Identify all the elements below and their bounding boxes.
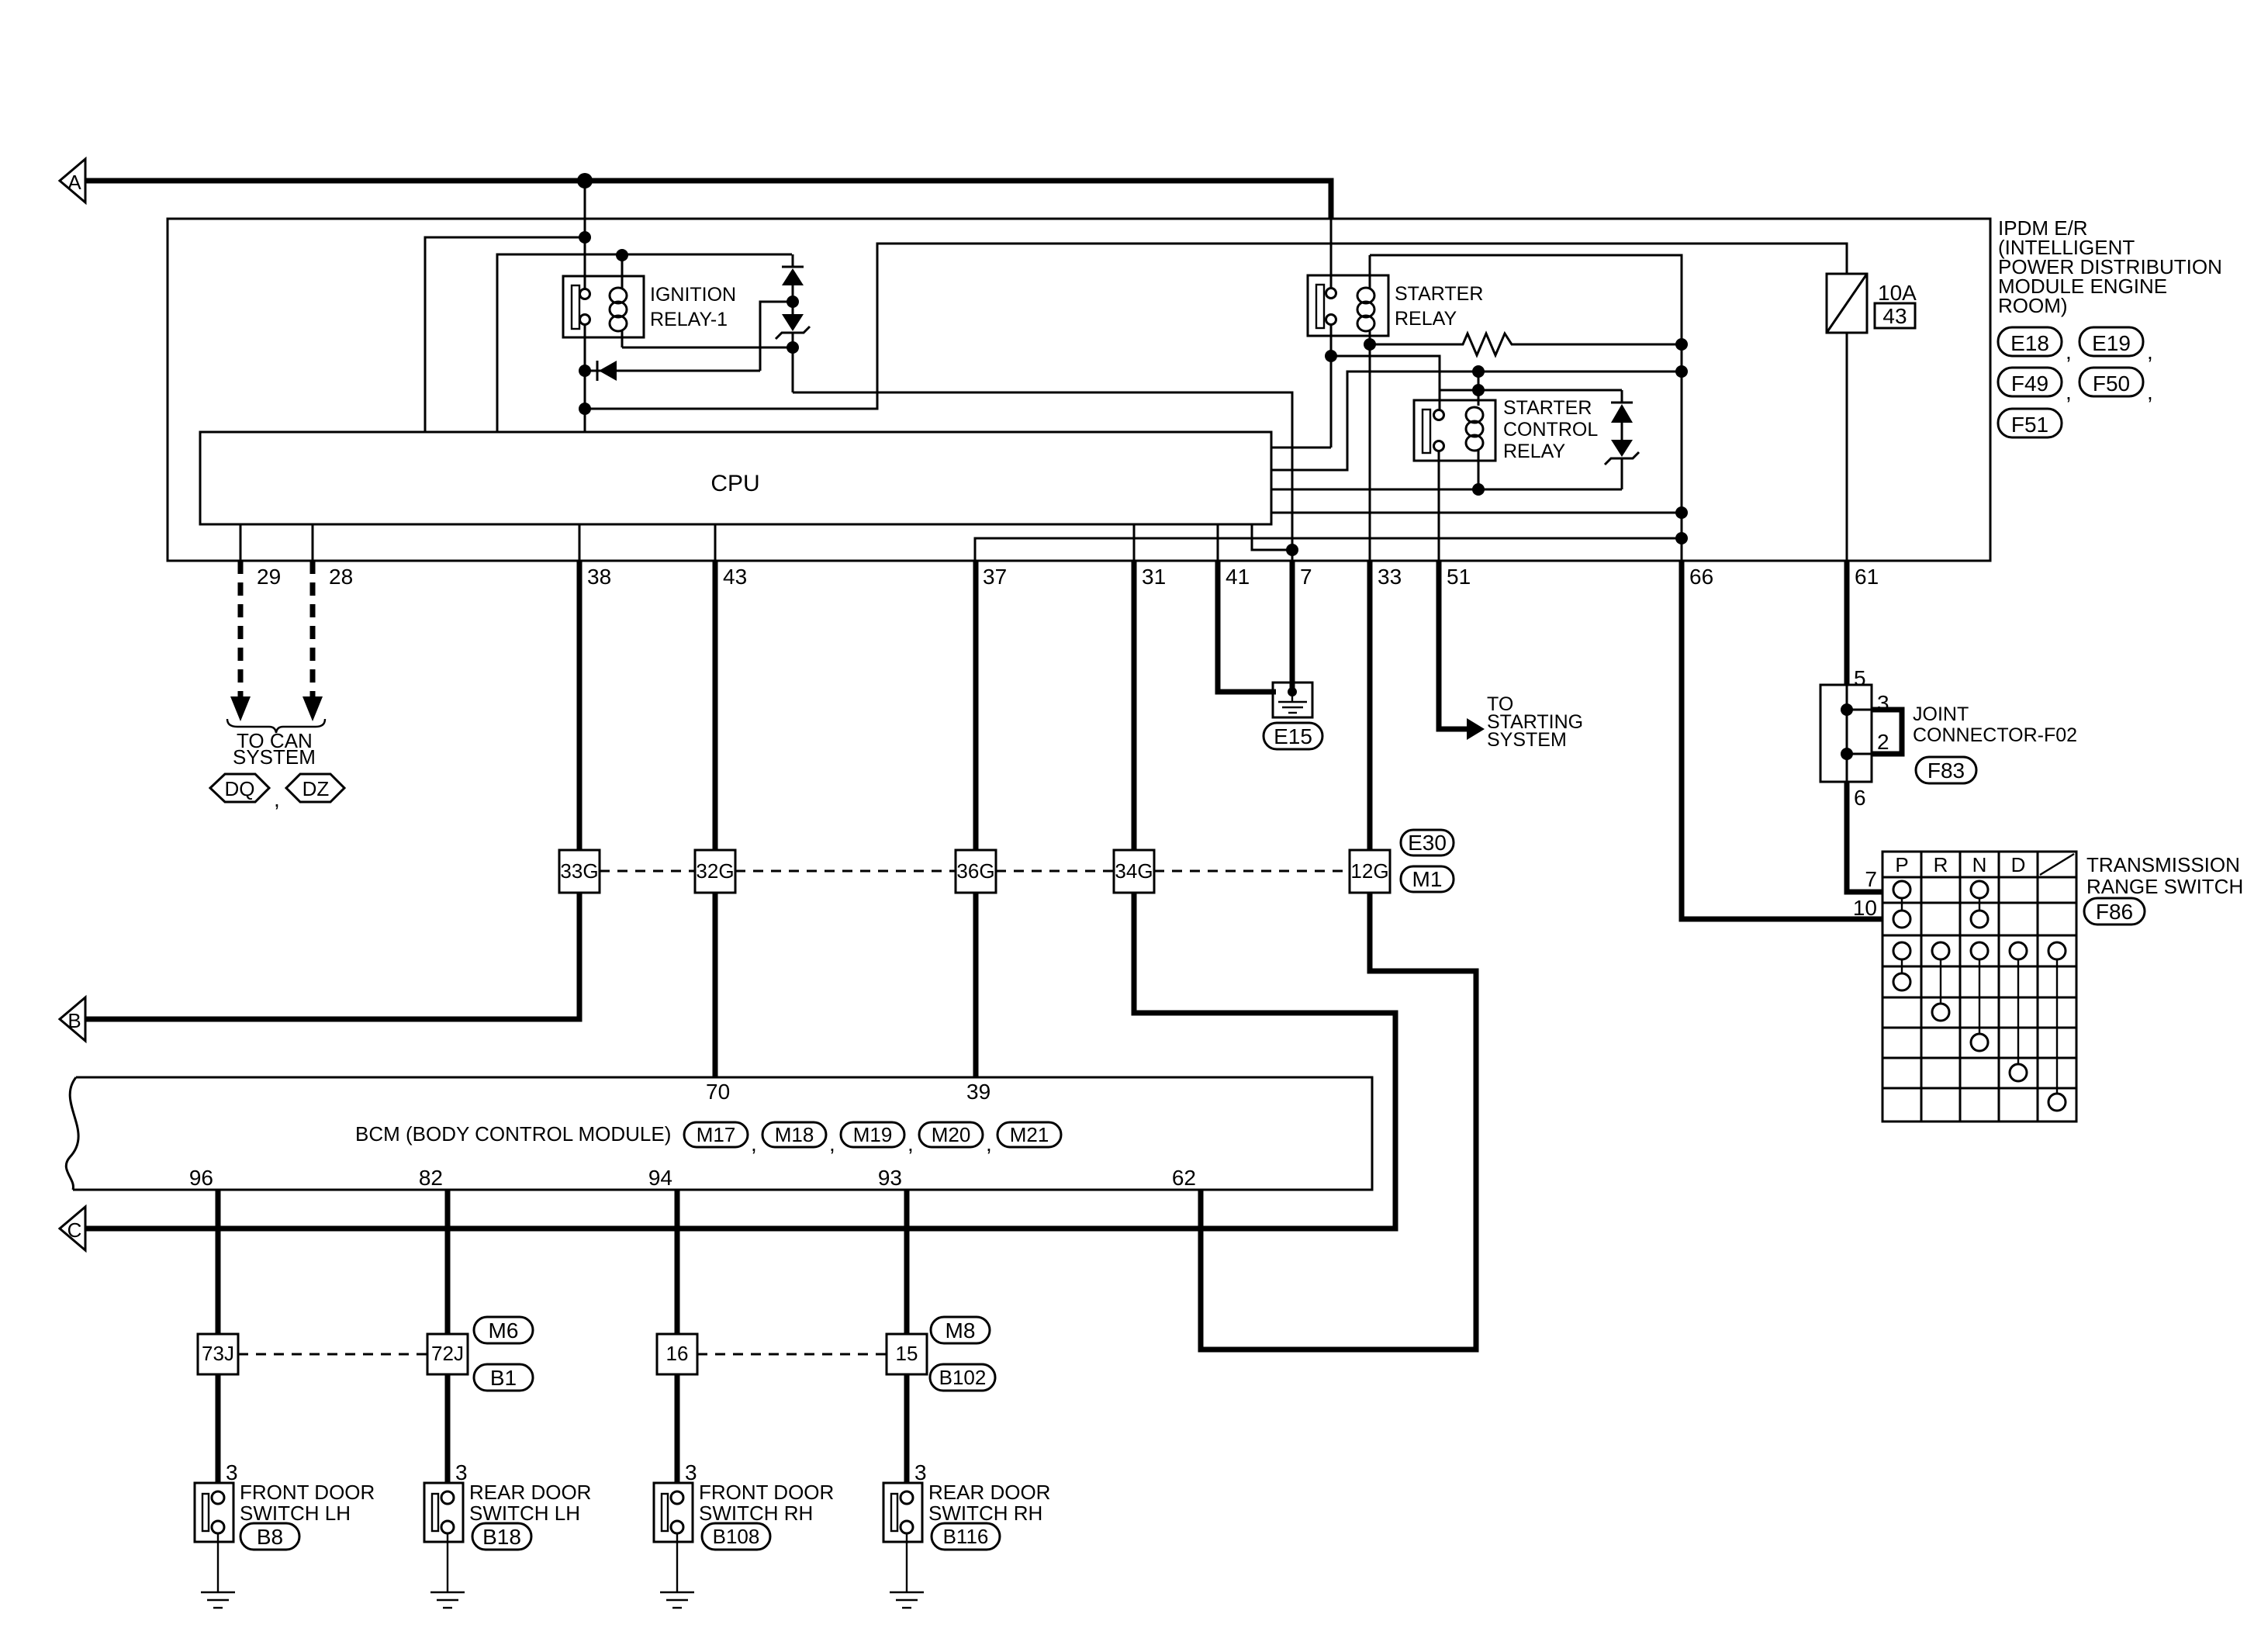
connector tag B102 <box>930 1364 995 1391</box>
wire starter contact to SCR contact top <box>1331 356 1440 410</box>
svg-text:,: , <box>2066 380 2072 404</box>
junction net66 <box>1675 532 1688 544</box>
connector tag M1 <box>1401 866 1454 892</box>
wire pin 51 to starting system <box>1439 561 1468 729</box>
svg-text:15: 15 <box>896 1342 918 1365</box>
connector tag E15 <box>1264 723 1322 749</box>
wire SCR contact output to pin 51 <box>1438 451 1440 561</box>
wire SCR cell top edge <box>1439 389 1622 392</box>
svg-text:5: 5 <box>1854 666 1866 690</box>
wire CPU pin 38 stub <box>579 524 581 561</box>
wire CPU pin to node 7 <box>1252 524 1292 550</box>
svg-text:DZ: DZ <box>303 777 330 800</box>
wire pin 66 to TRS pin 10 <box>1682 561 1882 919</box>
TRS P column contacts <box>1893 881 1910 898</box>
wire pin 61 to fuse <box>1846 333 1848 561</box>
wire 16 to front door switch RH <box>675 1374 680 1483</box>
svg-text:61: 61 <box>1855 565 1879 589</box>
svg-text:M6: M6 <box>489 1318 519 1343</box>
svg-text:CONTROL: CONTROL <box>1503 419 1598 441</box>
wire pin37 to net66 <box>975 538 1682 561</box>
connector 16 <box>657 1334 697 1374</box>
connector tag F86 <box>2084 898 2145 924</box>
wire ignition output to fuse (net 61 feed) <box>585 244 1847 409</box>
junction SCR coil top <box>1472 365 1485 378</box>
front door switch RH <box>654 1483 693 1542</box>
svg-text:,: , <box>829 1132 835 1156</box>
wire 73J to front door switch LH <box>216 1374 221 1483</box>
svg-text:SWITCH RH: SWITCH RH <box>928 1502 1042 1525</box>
resistor R1 <box>1370 334 1682 355</box>
svg-text:7: 7 <box>1300 565 1312 589</box>
connector 34G <box>1114 850 1154 893</box>
wire CPU to net66 <box>1271 512 1682 514</box>
wire zener output to CPU node 7 <box>793 392 1292 561</box>
CPU U1 box <box>200 432 1271 524</box>
fuse number box 43 <box>1875 303 1915 328</box>
CAN arrowhead right <box>303 696 323 721</box>
svg-text:STARTER: STARTER <box>1395 283 1483 305</box>
svg-text:RELAY: RELAY <box>1503 441 1565 462</box>
wire diode return to zener mid node <box>760 302 787 371</box>
svg-text:M17: M17 <box>697 1123 736 1146</box>
svg-text:CPU: CPU <box>710 471 759 496</box>
svg-text:REAR DOOR: REAR DOOR <box>469 1481 591 1504</box>
connector tag M8 <box>931 1317 990 1343</box>
svg-text:B108: B108 <box>713 1525 760 1548</box>
wire A to ignition relay contact top <box>584 181 586 289</box>
TRS D column contacts <box>2010 942 2027 959</box>
dashed link 73J-72J <box>238 1353 427 1356</box>
connector tag F49 <box>1998 368 2062 396</box>
junction diode tap <box>579 365 591 377</box>
starter relay coil <box>1369 255 1371 289</box>
connector 36G <box>956 850 996 893</box>
wire CPU pin 43 stub <box>714 524 717 561</box>
wire pin 37 to 36G <box>973 561 979 850</box>
svg-text:32G: 32G <box>696 859 734 883</box>
joint connector F02 box <box>1820 685 1872 782</box>
svg-text:28: 28 <box>329 565 353 589</box>
junction bus A dot <box>577 173 593 188</box>
svg-text:C: C <box>67 1218 82 1242</box>
svg-text:73J: 73J <box>202 1342 234 1365</box>
wire starter contact output <box>1330 325 1333 448</box>
starter control relay K3 box <box>1414 400 1495 461</box>
svg-text:72J: 72J <box>431 1342 464 1365</box>
svg-text:34G: 34G <box>1115 859 1153 883</box>
connector tag M18 <box>762 1122 826 1147</box>
svg-text:10: 10 <box>1853 896 1877 920</box>
CAN arrowhead left <box>230 696 251 721</box>
connector 72J <box>427 1334 468 1374</box>
svg-text:36G: 36G <box>956 859 994 883</box>
ignition relay K1 box <box>563 276 644 337</box>
svg-text:2: 2 <box>1877 730 1889 754</box>
svg-text:94: 94 <box>648 1166 672 1190</box>
svg-text:B1: B1 <box>490 1366 517 1390</box>
wire 15 to rear door switch RH <box>904 1374 910 1483</box>
starter relay K2 box <box>1308 275 1388 336</box>
svg-text:B8: B8 <box>257 1525 283 1549</box>
SCR contact circles <box>1434 410 1444 420</box>
rear door switch RH <box>883 1483 922 1542</box>
node A arrowhead <box>60 159 85 202</box>
wire bus A <box>85 181 1331 219</box>
zener D3 (ignition) <box>792 307 794 314</box>
svg-text:37: 37 <box>983 565 1007 589</box>
svg-text:10A: 10A <box>1878 281 1917 305</box>
starter relay contact circles <box>1326 289 1336 299</box>
wire ignition contact output <box>584 325 586 432</box>
junction node 7 <box>1286 544 1298 556</box>
svg-text:M1: M1 <box>1412 867 1443 891</box>
svg-text:STARTER: STARTER <box>1503 397 1592 419</box>
svg-text:N: N <box>1972 853 1987 876</box>
wire 32G to BCM pin 70 <box>713 893 718 1077</box>
node B arrowhead <box>60 997 85 1041</box>
SCR contact bar <box>1423 410 1430 453</box>
svg-text:B18: B18 <box>482 1525 521 1549</box>
svg-text:R: R <box>1934 853 1948 876</box>
connector 33G <box>559 850 600 893</box>
zener D5 (SCR) <box>1611 440 1633 457</box>
wire CAN-L dashed <box>310 561 316 699</box>
svg-text:3: 3 <box>685 1460 697 1484</box>
ground (rear door switch LH) <box>447 1533 448 1592</box>
node tag DQ <box>210 774 269 802</box>
rear door switch LH <box>424 1483 463 1542</box>
wire BCM pin 82 to 72J <box>445 1190 451 1334</box>
starter relay contact bar <box>1316 285 1324 328</box>
BCM torn left edge <box>66 1077 78 1190</box>
svg-text:70: 70 <box>706 1080 730 1104</box>
transmission range switch grid <box>1882 852 2076 1121</box>
connector tag E18 <box>1998 327 2062 356</box>
front door switch LH <box>195 1483 233 1542</box>
svg-text:82: 82 <box>419 1166 443 1190</box>
junction pin 3 <box>1841 703 1853 716</box>
connector tag B1 <box>474 1364 533 1391</box>
connector tag M6 <box>474 1317 533 1343</box>
wire CPU to SCR coil top / net66 <box>1271 372 1682 470</box>
svg-text:M19: M19 <box>853 1123 893 1146</box>
wire starter coil top to net66 <box>1370 255 1682 561</box>
connector tag M19 <box>841 1122 904 1147</box>
junction output tap <box>579 403 591 415</box>
svg-text:,: , <box>2147 340 2153 364</box>
svg-text:D: D <box>2011 853 2026 876</box>
svg-text:7: 7 <box>1865 867 1877 891</box>
diode D1 (flyback, ignition) <box>590 370 760 372</box>
svg-text:16: 16 <box>666 1342 689 1365</box>
wire pin 7 to ground E15 <box>1290 561 1295 689</box>
wire 12G to BCM pin 62 <box>1201 893 1476 1350</box>
svg-text:F50: F50 <box>2093 372 2130 396</box>
svg-text:3: 3 <box>226 1460 238 1484</box>
joint connector internal wire <box>1846 685 1848 782</box>
svg-text:SWITCH LH: SWITCH LH <box>469 1502 580 1525</box>
wire bus B from 33G <box>85 893 579 1019</box>
svg-text:B116: B116 <box>943 1525 989 1548</box>
TRS slash column contacts <box>2048 942 2066 959</box>
svg-text:ROOM): ROOM) <box>1998 294 2068 317</box>
svg-text:RELAY: RELAY <box>1395 308 1457 330</box>
svg-text:96: 96 <box>189 1166 213 1190</box>
junction starter coil / resistor <box>1364 338 1376 351</box>
svg-text:43: 43 <box>1882 304 1907 328</box>
wire CPU pin 28 stub <box>312 524 314 561</box>
node C arrowhead <box>60 1207 85 1250</box>
ignition relay contact bar <box>572 285 579 329</box>
CAN brace <box>227 719 325 733</box>
svg-text:SWITCH RH: SWITCH RH <box>699 1502 813 1525</box>
svg-text:39: 39 <box>966 1080 990 1104</box>
junction starter contact output <box>1325 350 1337 362</box>
svg-text:E15: E15 <box>1274 724 1312 748</box>
svg-text:F86: F86 <box>2096 900 2133 924</box>
TRS R column contacts <box>1932 942 1949 959</box>
wire pin 38 to 33G <box>577 561 583 850</box>
SCR coil feed <box>1478 372 1480 406</box>
connector 12G <box>1350 850 1390 893</box>
svg-text:F83: F83 <box>1927 759 1965 783</box>
ground (front door switch LH) <box>217 1533 219 1592</box>
wire 36G to BCM pin 39 <box>973 893 979 1077</box>
junction net66 tap <box>1675 365 1688 378</box>
svg-text:IGNITION: IGNITION <box>650 284 736 306</box>
wire CPU sense to contact-top node <box>425 237 585 432</box>
wire pin 31 to 34G <box>1132 561 1137 850</box>
connector tag M17 <box>684 1122 748 1147</box>
svg-text:F51: F51 <box>2011 413 2048 437</box>
SCR coil <box>1466 407 1483 423</box>
svg-text:38: 38 <box>587 565 611 589</box>
diode D2 (ignition, up) <box>792 254 794 267</box>
svg-text:,: , <box>908 1132 914 1156</box>
svg-text:93: 93 <box>878 1166 902 1190</box>
connector tag F51 <box>1998 409 2062 437</box>
svg-text:66: 66 <box>1689 565 1713 589</box>
svg-text:TRANSMISSION: TRANSMISSION <box>2086 853 2240 876</box>
svg-text:29: 29 <box>257 565 281 589</box>
svg-text:RELAY-1: RELAY-1 <box>650 309 728 330</box>
svg-text:43: 43 <box>723 565 747 589</box>
dashed link 16-15 <box>697 1353 887 1356</box>
wire pin 43 to 32G <box>713 561 718 850</box>
junction SCR box top <box>1472 384 1485 396</box>
svg-text:CONNECTOR-F02: CONNECTOR-F02 <box>1913 724 2077 746</box>
svg-text:B102: B102 <box>939 1366 987 1389</box>
svg-text:FRONT DOOR: FRONT DOOR <box>699 1481 834 1504</box>
svg-text:,: , <box>2147 380 2153 404</box>
wire joint connector pin 6 to TRS pin 7 <box>1847 782 1882 892</box>
svg-text:A: A <box>67 171 81 194</box>
svg-text:3: 3 <box>1877 691 1889 715</box>
svg-text:41: 41 <box>1226 565 1250 589</box>
svg-text:,: , <box>274 787 280 811</box>
diode D4 (SCR, up) <box>1621 390 1623 403</box>
svg-text:F49: F49 <box>2011 372 2048 396</box>
wire CPU pin 31 stub <box>1133 524 1136 561</box>
connector tag M20 <box>919 1122 983 1147</box>
svg-text:E30: E30 <box>1408 831 1447 855</box>
svg-text:M18: M18 <box>775 1123 814 1146</box>
wire pin 41 to ground E15 <box>1218 561 1276 692</box>
svg-text:E19: E19 <box>2092 331 2131 355</box>
wire CPU to SCR coil bottom (cell bottom edge) <box>1271 489 1622 491</box>
connector tag M21 <box>997 1122 1061 1147</box>
svg-text:51: 51 <box>1447 565 1471 589</box>
wire CPU pin 41 stub <box>1217 524 1219 561</box>
svg-text:62: 62 <box>1172 1166 1196 1190</box>
wire CAN-H dashed <box>238 561 244 699</box>
svg-text:,: , <box>986 1132 992 1156</box>
svg-text:SWITCH LH: SWITCH LH <box>240 1502 351 1525</box>
svg-text:31: 31 <box>1142 565 1166 589</box>
wire pin 61 to joint connector <box>1844 561 1850 685</box>
svg-text:33G: 33G <box>560 859 598 883</box>
svg-text:SYSTEM: SYSTEM <box>233 745 316 769</box>
svg-text:E18: E18 <box>2010 331 2049 355</box>
wire CPU to ignition coil top <box>497 254 792 432</box>
svg-text:,: , <box>751 1132 757 1156</box>
svg-text:JOINT: JOINT <box>1913 703 1969 725</box>
connector tag E19 <box>2079 327 2143 356</box>
junction net66 <box>1675 506 1688 519</box>
TRS N column contacts <box>1971 881 1988 898</box>
jumper 3-2 <box>1847 709 1872 711</box>
ground (front door switch RH) <box>676 1533 678 1592</box>
svg-text:33: 33 <box>1378 565 1402 589</box>
node D2/D3 junction <box>787 295 799 308</box>
junction ignition coil return <box>787 341 799 354</box>
wire CPU pin 29 stub <box>240 524 242 561</box>
svg-text:FRONT DOOR: FRONT DOOR <box>240 1481 375 1504</box>
wire BCM pin 93 to 15 <box>904 1190 910 1334</box>
wire bus C to 34G <box>85 893 1395 1229</box>
connector tag E30 <box>1401 830 1454 855</box>
connector tag F83 <box>1916 757 1976 783</box>
svg-text:3: 3 <box>455 1460 468 1484</box>
node tag DZ <box>286 774 344 802</box>
svg-text:M21: M21 <box>1010 1123 1049 1146</box>
svg-text:RANGE SWITCH: RANGE SWITCH <box>2086 875 2243 898</box>
arrow to starting system <box>1467 718 1485 740</box>
wire 72J to rear door switch LH <box>445 1374 451 1483</box>
svg-text:12G: 12G <box>1350 859 1388 883</box>
wire A to starter contact top <box>1330 219 1333 289</box>
wire CPU pin to starter contact output <box>1271 447 1331 449</box>
wire pin 33 to 12G <box>1367 561 1373 850</box>
svg-text:M8: M8 <box>946 1318 976 1343</box>
junction resistor to net66 <box>1675 338 1688 351</box>
IPDM E/R enclosure box <box>168 219 1990 561</box>
BCM box <box>73 1077 1372 1190</box>
svg-text:BCM (BODY CONTROL MODULE): BCM (BODY CONTROL MODULE) <box>355 1122 671 1146</box>
fuse F1 10A <box>1827 274 1867 333</box>
connector 32G <box>695 850 735 893</box>
svg-text:3: 3 <box>914 1460 927 1484</box>
ground (rear door switch RH) <box>906 1533 908 1592</box>
svg-text:P: P <box>1895 853 1908 876</box>
svg-text:DQ: DQ <box>225 777 255 800</box>
wire ignition coil bottom to zener node <box>622 347 787 349</box>
connector 73J <box>198 1334 238 1374</box>
wire BCM pin 94 to 16 <box>675 1190 680 1334</box>
dashed connector links <box>600 870 695 873</box>
svg-text:,: , <box>2066 340 2072 364</box>
svg-text:B: B <box>67 1009 81 1032</box>
wire BCM pin 96 to 73J <box>216 1190 221 1334</box>
svg-text:REAR DOOR: REAR DOOR <box>928 1481 1050 1504</box>
ground E15 symbol <box>1273 683 1312 717</box>
junction SCR coil bottom <box>1472 483 1485 496</box>
junction pin 2 <box>1841 748 1853 760</box>
svg-text:M20: M20 <box>932 1123 971 1146</box>
ignition relay coil <box>621 254 624 289</box>
junction ignition contact node <box>579 231 591 244</box>
svg-text:SYSTEM: SYSTEM <box>1487 729 1567 751</box>
ignition relay contact circles <box>580 289 590 299</box>
svg-text:6: 6 <box>1854 786 1866 810</box>
connector tag F50 <box>2079 368 2143 396</box>
junction ignition coil top dot <box>616 249 628 261</box>
connector 15 <box>887 1334 927 1374</box>
